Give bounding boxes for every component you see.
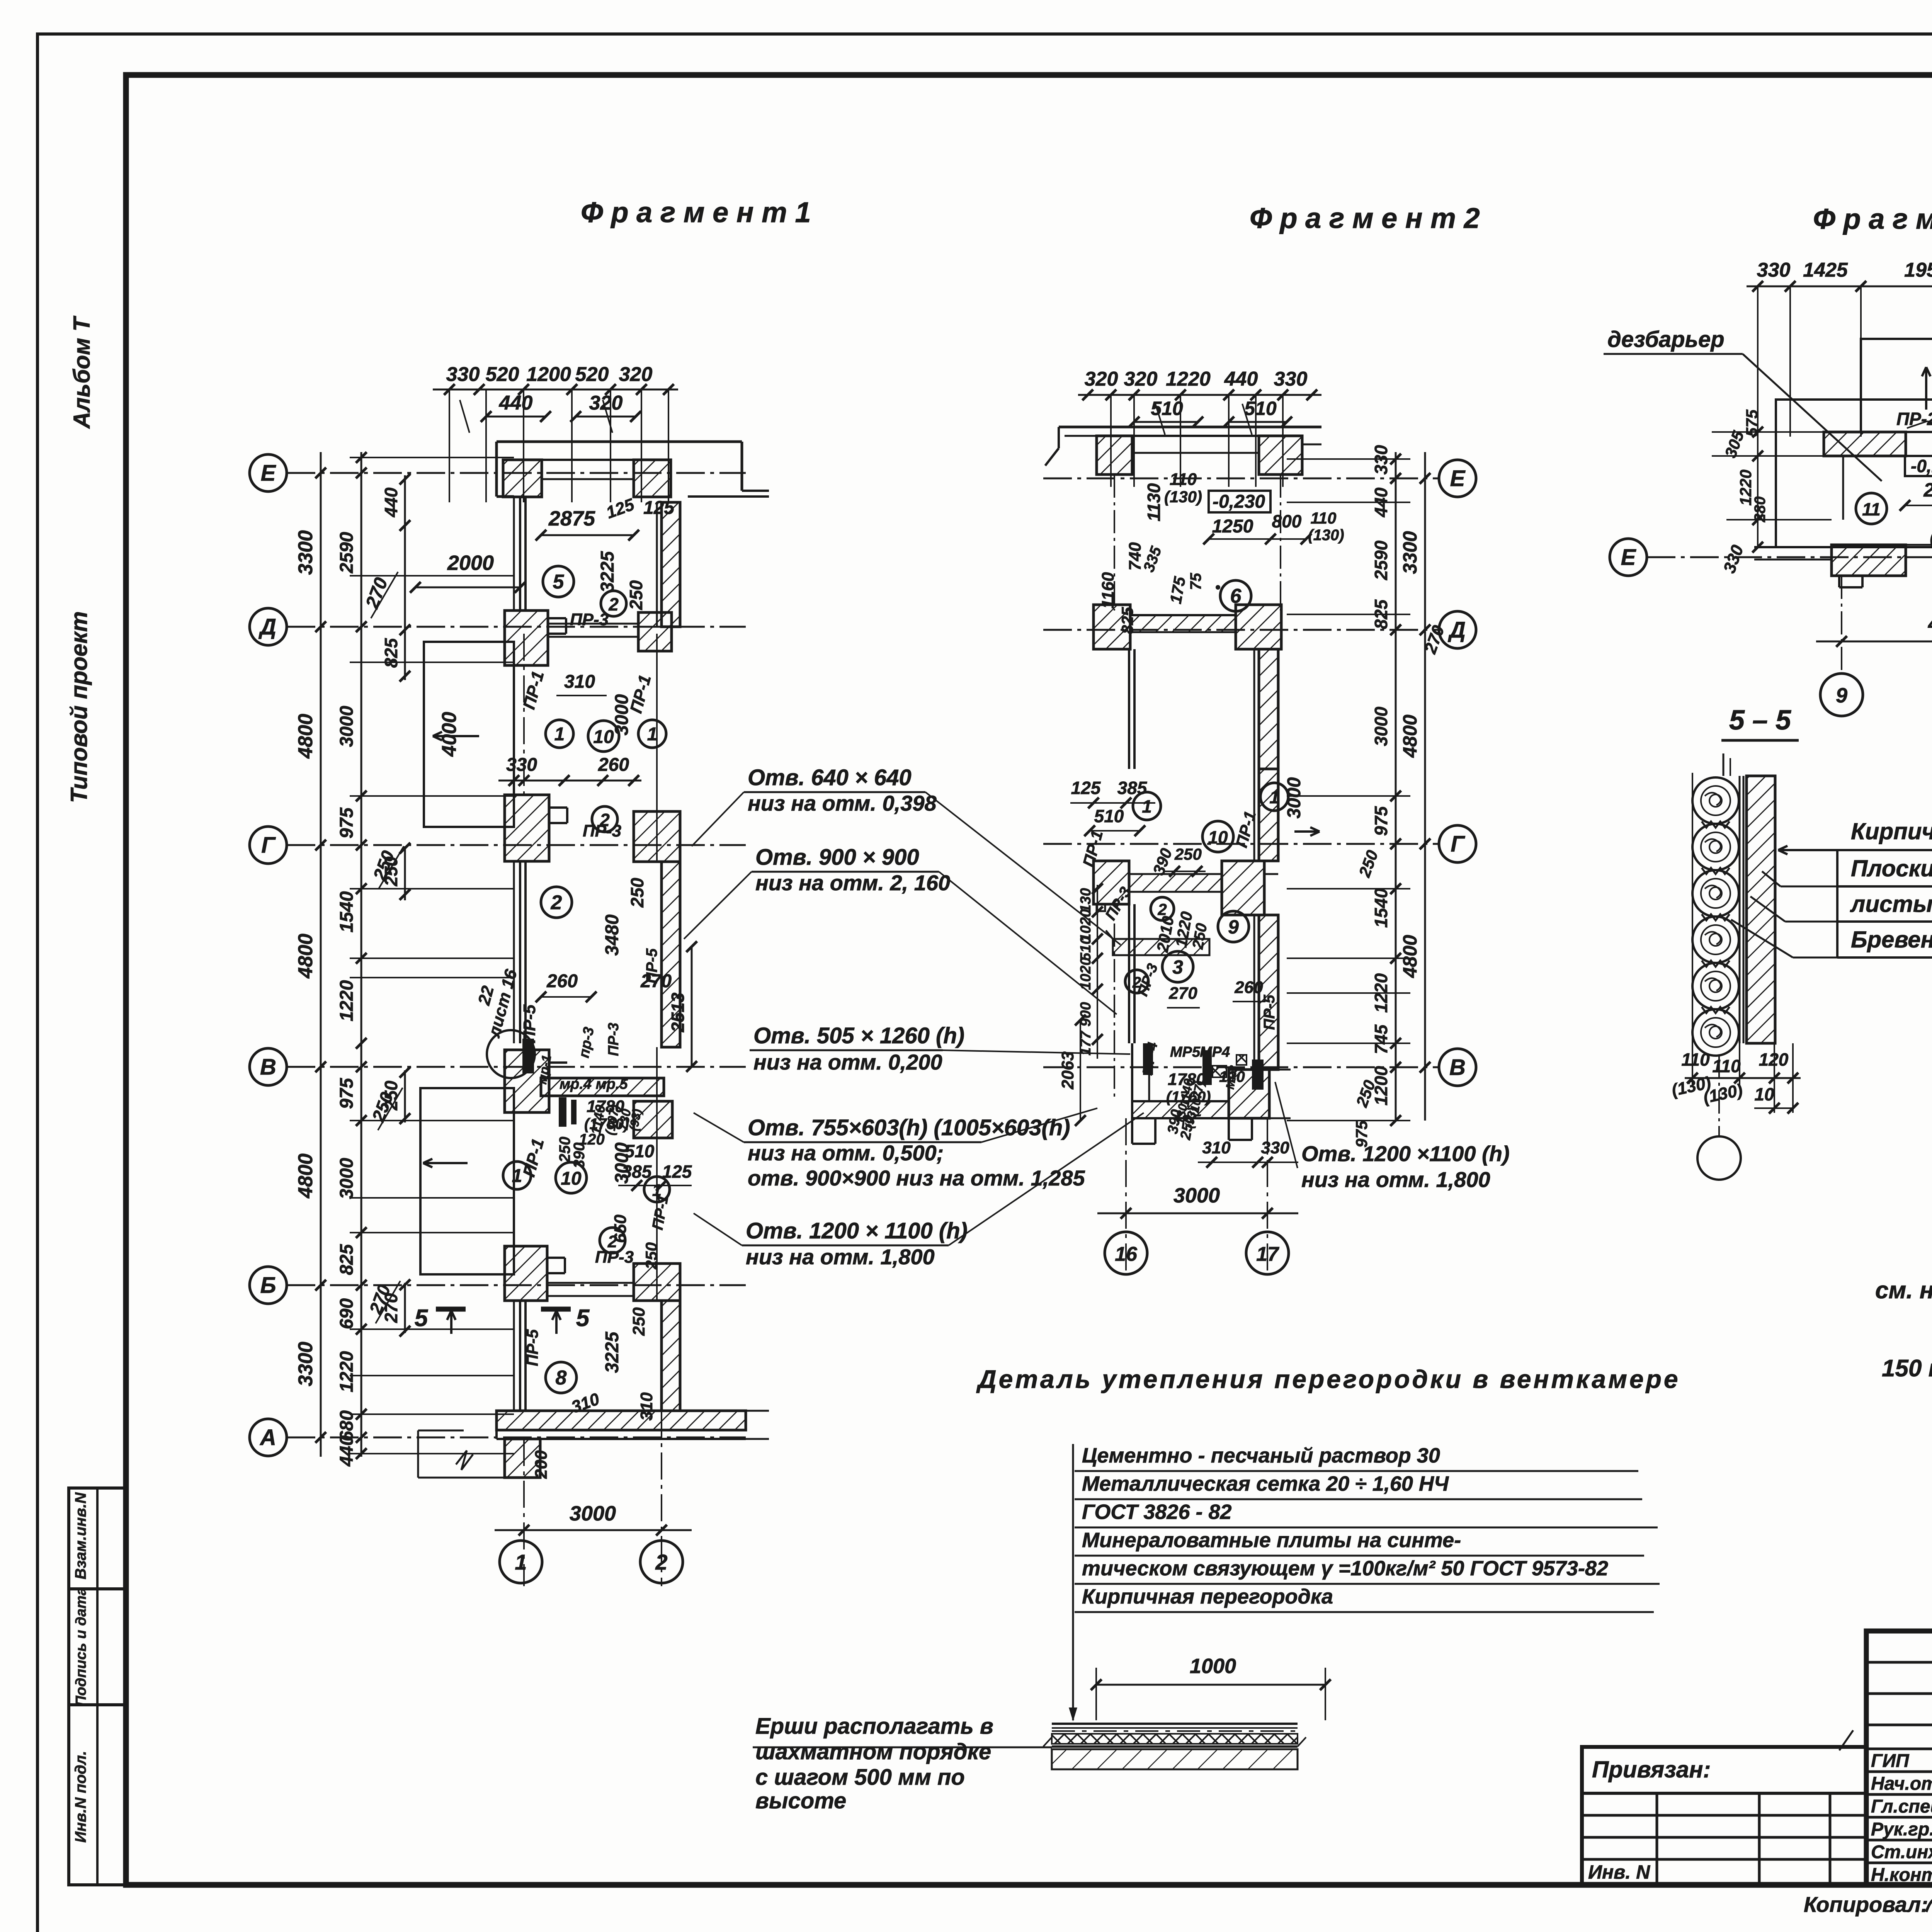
- svg-text:ГИП: ГИП: [1871, 1751, 1910, 1771]
- svg-text:Г: Г: [261, 833, 276, 858]
- svg-text:4800: 4800: [294, 934, 317, 979]
- svg-text:ПР-3: ПР-3: [595, 1248, 634, 1267]
- svg-text:4800: 4800: [294, 1153, 317, 1199]
- svg-text:Инв. N: Инв. N: [1588, 1861, 1650, 1883]
- svg-text:низ на отм. 1,800: низ на отм. 1,800: [746, 1245, 935, 1269]
- svg-text:17: 17: [1256, 1243, 1279, 1265]
- svg-text:2000: 2000: [447, 551, 494, 575]
- svg-text:5 – 5: 5 – 5: [1729, 705, 1791, 736]
- svg-text:5: 5: [553, 571, 565, 593]
- svg-text:МР5: МР5: [1170, 1044, 1201, 1060]
- svg-text:1: 1: [1142, 796, 1152, 816]
- svg-text:2: 2: [608, 594, 619, 614]
- svg-text:825: 825: [381, 638, 401, 668]
- svg-text:510: 510: [1151, 398, 1183, 419]
- svg-text:260: 260: [546, 971, 578, 992]
- svg-text:Цементно - песчаный раствор: Цементно - песчаный раствор 30: [1082, 1444, 1440, 1467]
- svg-text:110: 110: [1170, 470, 1197, 489]
- svg-text:низ на отм. 1,800: низ на отм. 1,800: [1301, 1167, 1490, 1192]
- svg-text:МР4: МР4: [1200, 1044, 1230, 1060]
- svg-text:2063: 2063: [1058, 1051, 1077, 1090]
- svg-text:Отв. 640 × 640: Отв. 640 × 640: [748, 765, 912, 790]
- svg-text:330: 330: [1757, 259, 1791, 281]
- svg-text:3000: 3000: [570, 1502, 616, 1525]
- svg-text:1200: 1200: [526, 363, 571, 386]
- svg-text:520: 520: [486, 363, 519, 386]
- svg-text:440: 440: [1224, 368, 1258, 390]
- svg-text:3225: 3225: [597, 551, 618, 592]
- svg-text:4800: 4800: [1928, 612, 1932, 635]
- svg-text:1: 1: [647, 724, 658, 745]
- svg-text:250: 250: [629, 1307, 648, 1336]
- svg-text:Е: Е: [261, 461, 277, 486]
- svg-text:Привязан:: Привязан:: [1592, 1757, 1711, 1782]
- svg-text:1220: 1220: [1166, 368, 1211, 390]
- svg-text:(130): (130): [1164, 488, 1202, 506]
- svg-text:690: 690: [337, 1298, 357, 1329]
- svg-text:125: 125: [662, 1162, 692, 1182]
- svg-text:385: 385: [1117, 778, 1148, 798]
- svg-text:330: 330: [1261, 1138, 1289, 1157]
- svg-text:3000: 3000: [1173, 1184, 1220, 1207]
- svg-text:1540: 1540: [1371, 888, 1391, 928]
- svg-text:В: В: [1449, 1055, 1466, 1080]
- svg-text:800: 800: [1272, 511, 1302, 531]
- svg-text:110: 110: [1712, 1056, 1741, 1076]
- svg-text:Е: Е: [1621, 545, 1637, 570]
- svg-text:Кирпичная перегородка: Кирпичная перегородка: [1082, 1585, 1333, 1608]
- svg-text:1130: 1130: [1144, 483, 1164, 521]
- svg-text:270: 270: [1168, 984, 1197, 1003]
- svg-text:9: 9: [1228, 916, 1239, 938]
- svg-text:4000: 4000: [438, 712, 461, 757]
- svg-text:шахматном порядке: шахматном порядке: [755, 1739, 991, 1764]
- svg-text:3300: 3300: [1399, 531, 1421, 574]
- svg-text:Отв. 1200 ×1100 (h): Отв. 1200 ×1100 (h): [1301, 1141, 1510, 1166]
- svg-text:3000: 3000: [337, 706, 357, 747]
- svg-text:Инв.N подл.: Инв.N подл.: [72, 1751, 89, 1843]
- svg-text:ПР-5: ПР-5: [643, 948, 660, 984]
- svg-text:745: 745: [1371, 1024, 1391, 1054]
- svg-text:520: 520: [575, 363, 609, 386]
- svg-text:ПР-3: ПР-3: [570, 610, 609, 629]
- svg-text:975: 975: [1352, 1120, 1371, 1148]
- svg-text:Подпись и дата: Подпись и дата: [73, 1587, 89, 1706]
- svg-text:320: 320: [1085, 368, 1118, 390]
- svg-text:3000: 3000: [1284, 777, 1304, 818]
- svg-text:8: 8: [556, 1367, 567, 1389]
- svg-text:Копировал:: Копировал:: [1804, 1892, 1928, 1917]
- svg-text:5: 5: [576, 1305, 590, 1332]
- svg-text:2: 2: [655, 1550, 667, 1574]
- svg-text:3225: 3225: [602, 1331, 622, 1373]
- svg-text:Гл.спец.: Гл.спец.: [1871, 1796, 1932, 1817]
- svg-text:200: 200: [532, 1450, 551, 1479]
- svg-text:-0,230: -0,230: [1213, 492, 1265, 512]
- svg-text:1950: 1950: [1904, 259, 1932, 281]
- svg-text:1250: 1250: [1212, 516, 1253, 537]
- svg-text:Отв. 755×603(h) (1005×603(h): Отв. 755×603(h) (1005×603(h): [748, 1115, 1070, 1140]
- svg-text:4800: 4800: [1399, 714, 1421, 758]
- svg-text:385: 385: [622, 1162, 652, 1182]
- svg-text:2590: 2590: [337, 532, 357, 573]
- svg-text:825: 825: [337, 1244, 357, 1275]
- svg-text:1220: 1220: [337, 980, 357, 1021]
- svg-text:330: 330: [506, 755, 537, 775]
- svg-text:Д: Д: [1447, 617, 1466, 643]
- svg-text:Металлическая сетка 20 ÷ 1: Металлическая сетка 20 ÷ 1,60 НЧ: [1082, 1472, 1449, 1495]
- svg-text:тическом связующем γ =100кг/: тическом связующем γ =100кг/м² 50 ГОСТ 9…: [1082, 1557, 1608, 1580]
- svg-text:1: 1: [512, 1166, 522, 1186]
- svg-text:975: 975: [1371, 806, 1391, 836]
- svg-text:Ф р а г м е н т 1: Ф р а г м е н т 1: [581, 196, 811, 228]
- svg-text:1160: 1160: [1099, 572, 1117, 609]
- svg-text:1: 1: [554, 724, 565, 745]
- svg-text:125: 125: [643, 498, 675, 518]
- svg-text:260: 260: [598, 755, 629, 775]
- svg-text:3300: 3300: [294, 530, 317, 575]
- svg-text:250: 250: [1174, 845, 1202, 863]
- svg-text:Отв. 1200 × 1100 (h): Отв. 1200 × 1100 (h): [746, 1218, 968, 1243]
- svg-text:Ст.инж.: Ст.инж.: [1871, 1842, 1932, 1862]
- svg-text:10: 10: [561, 1168, 582, 1189]
- svg-text:Типовой проект: Типовой проект: [66, 611, 92, 803]
- svg-text:2: 2: [551, 891, 562, 914]
- svg-text:16: 16: [1115, 1243, 1138, 1265]
- svg-text:510: 510: [1078, 936, 1094, 961]
- svg-text:2513: 2513: [668, 992, 688, 1032]
- svg-text:3480: 3480: [602, 914, 622, 956]
- svg-text:10: 10: [593, 727, 614, 747]
- svg-text:Альбом Т: Альбом Т: [69, 316, 95, 429]
- svg-text:75: 75: [1187, 573, 1204, 590]
- svg-text:Отв. 900 × 900: Отв. 900 × 900: [755, 845, 919, 870]
- svg-text:3000: 3000: [612, 694, 632, 735]
- svg-text:110: 110: [1681, 1049, 1710, 1070]
- svg-text:2590: 2590: [1371, 540, 1391, 580]
- svg-text:320: 320: [1124, 368, 1158, 390]
- svg-text:330: 330: [446, 363, 480, 386]
- svg-text:330: 330: [1274, 368, 1308, 390]
- svg-text:Взам.инв.N: Взам.инв.N: [72, 1492, 89, 1579]
- svg-text:310: 310: [1202, 1138, 1231, 1157]
- svg-text:В: В: [260, 1054, 276, 1080]
- svg-text:10: 10: [1208, 827, 1228, 847]
- svg-text:3000: 3000: [337, 1158, 357, 1199]
- svg-text:Ерши располагать в: Ерши располагать в: [755, 1714, 993, 1739]
- svg-text:10: 10: [1754, 1084, 1774, 1104]
- svg-text:2: 2: [599, 810, 610, 830]
- svg-text:4800: 4800: [1399, 935, 1421, 978]
- svg-text:440: 440: [337, 1435, 357, 1467]
- svg-text:А: А: [259, 1425, 276, 1450]
- svg-text:низ на отм. 0,200: низ на отм. 0,200: [753, 1050, 942, 1074]
- svg-text:310: 310: [564, 672, 595, 692]
- svg-text:Н.контр.: Н.контр.: [1871, 1865, 1932, 1885]
- svg-text:2875: 2875: [548, 507, 595, 530]
- svg-text:(130): (130): [1308, 527, 1344, 544]
- svg-text:250: 250: [627, 878, 647, 908]
- svg-text:11: 11: [1862, 499, 1881, 519]
- svg-text:320: 320: [619, 363, 653, 386]
- svg-text:ПР-5: ПР-5: [523, 1329, 541, 1366]
- svg-text:3000: 3000: [1371, 706, 1391, 746]
- svg-text:Рук.гр.: Рук.гр.: [1871, 1819, 1932, 1840]
- svg-text:мр.4 мр.5: мр.4 мр.5: [560, 1076, 628, 1092]
- svg-text:Е: Е: [1450, 466, 1466, 491]
- svg-text:975: 975: [337, 807, 357, 838]
- svg-text:дезбарьер: дезбарьер: [1607, 327, 1725, 352]
- svg-text:3300: 3300: [294, 1342, 317, 1386]
- svg-text:Нач.отд: Нач.отд: [1871, 1774, 1932, 1794]
- svg-text:Ф р а г м е н т 3: Ф р а г м е н т 3: [1813, 203, 1932, 235]
- svg-text:975: 975: [337, 1078, 357, 1109]
- svg-text:510: 510: [1244, 398, 1277, 419]
- svg-text:низ на отм. 2, 160: низ на отм. 2, 160: [755, 871, 950, 895]
- svg-text:125: 125: [1071, 778, 1101, 798]
- svg-text:Г: Г: [1451, 832, 1465, 857]
- svg-text:Деталь утепления перегород: Деталь утепления перегородки в венткамер…: [976, 1365, 1680, 1393]
- svg-text:250: 250: [626, 580, 646, 610]
- svg-text:1540: 1540: [337, 891, 357, 932]
- svg-text:9: 9: [1836, 684, 1847, 707]
- svg-text:440: 440: [381, 487, 401, 517]
- svg-text:440: 440: [499, 392, 533, 414]
- svg-text:листы (не крепить)ГОСТ18124-75: листы (не крепить)ГОСТ18124-75: [1850, 891, 1932, 917]
- svg-text:510: 510: [1094, 806, 1124, 826]
- svg-text:Отв. 505 × 1260 (h): Отв. 505 × 1260 (h): [753, 1023, 964, 1048]
- svg-text:1220: 1220: [337, 1351, 357, 1392]
- svg-text:с шагом 500 мм по: с шагом 500 мм по: [755, 1765, 965, 1790]
- svg-text:низ на отм. 0,500;: низ на отм. 0,500;: [748, 1141, 944, 1165]
- svg-text:3: 3: [1172, 956, 1183, 978]
- svg-text:см. на листе АСИ - МР: см. на листе АСИ - МР-1 . . . МР - 5 .: [1875, 1277, 1932, 1304]
- svg-text:150 кгс/м² (1,47 кПа ) и те: 150 кгс/м² (1,47 кПа ) и температуры нар…: [1882, 1355, 1932, 1382]
- svg-text:Бревенчатая стена: Бревенчатая стена: [1851, 927, 1932, 952]
- svg-text:-0,100: -0,100: [1911, 456, 1932, 476]
- svg-text:Плоские асбестоцементные: Плоские асбестоцементные: [1851, 855, 1932, 881]
- svg-text:Кирпичная кладка: Кирпичная кладка: [1851, 818, 1932, 844]
- svg-text:130: 130: [1078, 888, 1094, 912]
- svg-text:5: 5: [415, 1305, 429, 1332]
- svg-text:510: 510: [625, 1141, 655, 1161]
- svg-text:2100: 2100: [1923, 479, 1932, 501]
- svg-text:Ф р а г м е н т 2: Ф р а г м е н т 2: [1250, 202, 1480, 234]
- svg-text:ГОСТ 3826 - 82: ГОСТ 3826 - 82: [1082, 1500, 1232, 1524]
- svg-text:высоте: высоте: [755, 1788, 846, 1813]
- svg-text:Минераловатные плиты на с: Минераловатные плиты на синте-: [1082, 1529, 1461, 1552]
- svg-text:1000: 1000: [1190, 1655, 1236, 1678]
- svg-text:Д: Д: [258, 614, 276, 639]
- svg-text:низ на отм. 0,398: низ на отм. 0,398: [748, 791, 937, 815]
- svg-text:ПР-3: ПР-3: [605, 1023, 622, 1056]
- svg-text:1425: 1425: [1803, 259, 1848, 281]
- svg-text:Б: Б: [260, 1273, 276, 1298]
- svg-text:110: 110: [1311, 509, 1337, 527]
- svg-text:4800: 4800: [294, 714, 317, 759]
- svg-text:1: 1: [515, 1550, 527, 1574]
